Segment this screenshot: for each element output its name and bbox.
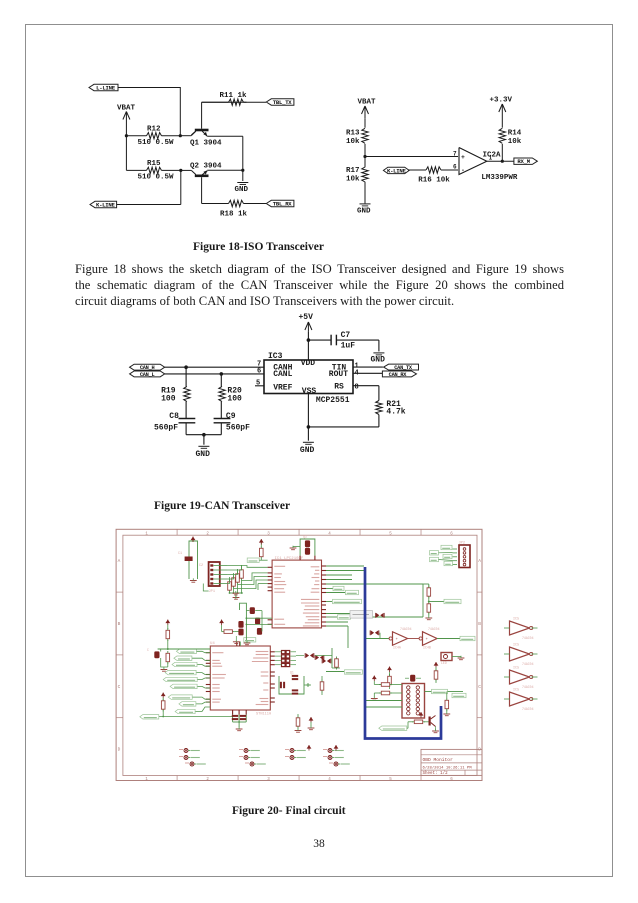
svg-text:74AC04: 74AC04 (400, 627, 412, 631)
svg-text:R16 10k: R16 10k (418, 177, 450, 185)
svg-text:R17: R17 (346, 167, 360, 175)
svg-text:74AC04: 74AC04 (428, 627, 440, 631)
svg-text:Sheet: 1/2: Sheet: 1/2 (423, 771, 449, 776)
svg-text:MCP2551: MCP2551 (316, 396, 350, 405)
svg-text:2: 2 (206, 533, 209, 537)
svg-text:2: 2 (206, 778, 209, 782)
svg-text:74AC04: 74AC04 (522, 707, 534, 711)
svg-text:6: 6 (450, 778, 453, 782)
svg-text:C: C (118, 684, 121, 690)
svg-text:Q1: Q1 (290, 671, 294, 675)
svg-text:R13: R13 (346, 130, 360, 138)
svg-text:TBL_RX: TBL_RX (273, 201, 293, 208)
svg-text:Q2: Q2 (303, 536, 307, 540)
svg-text:IC4A: IC4A (393, 646, 401, 650)
svg-text:VREF: VREF (273, 383, 292, 392)
svg-text:LED: LED (441, 661, 447, 665)
svg-text:IC4B: IC4B (423, 646, 431, 650)
svg-text:560pF: 560pF (226, 424, 250, 433)
svg-text:+: + (396, 638, 399, 642)
svg-text:1: 1 (145, 533, 148, 537)
svg-text:10k: 10k (346, 176, 360, 184)
svg-text:GND: GND (196, 450, 211, 459)
svg-text:GND: GND (300, 446, 315, 455)
svg-text:IC1 LPC2103F: IC1 LPC2103F (275, 557, 304, 561)
svg-text:A: A (118, 558, 121, 564)
svg-text:+5V: +5V (299, 313, 314, 322)
svg-text:4: 4 (328, 778, 331, 782)
svg-text:D: D (118, 747, 121, 753)
svg-text:VBAT: VBAT (117, 104, 136, 112)
svg-text:IC5: IC5 (513, 689, 519, 693)
svg-text:IC5: IC5 (513, 644, 519, 648)
svg-text:1uF: 1uF (341, 341, 356, 350)
svg-text:4.7k: 4.7k (386, 408, 405, 417)
svg-text:ROUT: ROUT (329, 370, 348, 379)
svg-text:3: 3 (267, 778, 270, 782)
svg-text:74AC04: 74AC04 (522, 685, 534, 689)
svg-text:C: C (478, 684, 481, 690)
svg-text:STN1110: STN1110 (256, 713, 271, 717)
svg-text:-: - (461, 167, 465, 174)
svg-text:TBL_TX: TBL_TX (273, 99, 293, 106)
svg-text:510 0.5W: 510 0.5W (138, 174, 175, 182)
svg-text:+3.3V: +3.3V (490, 97, 513, 105)
svg-text:C: C (147, 648, 149, 652)
svg-text:CAN_L: CAN_L (140, 372, 155, 378)
svg-text:OBD Monitor: OBD Monitor (423, 757, 454, 763)
svg-text:K-LINE: K-LINE (387, 167, 407, 174)
svg-text:A: A (478, 558, 481, 564)
svg-text:100: 100 (161, 394, 176, 403)
svg-text:R12: R12 (147, 126, 161, 134)
svg-text:6/28/2014 10:26:11 PM: 6/28/2014 10:26:11 PM (423, 765, 473, 770)
svg-text:4: 4 (328, 533, 331, 537)
svg-text:6: 6 (453, 164, 457, 171)
svg-text:JP1: JP1 (209, 590, 215, 594)
svg-text:74AC04: 74AC04 (522, 662, 534, 666)
svg-text:LM339PWR: LM339PWR (481, 174, 518, 182)
svg-text:1: 1 (145, 778, 148, 782)
svg-text:IC5: IC5 (513, 618, 519, 622)
svg-text:7: 7 (453, 151, 457, 158)
svg-text:6: 6 (450, 533, 453, 537)
svg-text:C2: C2 (199, 564, 203, 568)
svg-text:B: B (478, 621, 481, 627)
svg-text:1: 1 (489, 155, 493, 162)
svg-text:3: 3 (267, 533, 270, 537)
svg-text:VBAT: VBAT (358, 99, 377, 107)
svg-text:+: + (426, 638, 429, 642)
svg-text:CAN_TX: CAN_TX (394, 365, 413, 371)
svg-text:GND: GND (357, 208, 371, 216)
svg-text:B: B (118, 621, 121, 627)
svg-text:C8: C8 (169, 412, 179, 421)
svg-text:560pF: 560pF (154, 424, 178, 433)
svg-text:RX_M: RX_M (517, 158, 530, 165)
svg-text:Q1 3904: Q1 3904 (190, 140, 222, 148)
svg-text:5: 5 (389, 778, 392, 782)
svg-text:5: 5 (389, 533, 392, 537)
svg-text:CAN_RX: CAN_RX (389, 372, 408, 378)
svg-text:R15: R15 (147, 160, 161, 168)
svg-text:JP2: JP2 (459, 542, 465, 546)
svg-text:VSS: VSS (302, 387, 317, 396)
svg-text:CANL: CANL (273, 370, 292, 379)
svg-text:U4: U4 (210, 642, 215, 646)
svg-text:10k: 10k (346, 138, 360, 146)
svg-text:74AC04: 74AC04 (522, 636, 534, 640)
svg-text:R11 1k: R11 1k (220, 92, 248, 100)
svg-text:C1: C1 (178, 552, 182, 556)
svg-text:VDD: VDD (301, 359, 316, 368)
svg-text:IC5: IC5 (513, 667, 519, 671)
svg-text:C7: C7 (341, 331, 351, 340)
svg-text:100: 100 (227, 394, 242, 403)
svg-text:8: 8 (355, 384, 359, 392)
svg-text:10k: 10k (508, 138, 522, 146)
svg-text:510 0.5W: 510 0.5W (138, 139, 175, 147)
svg-text:R14: R14 (508, 130, 522, 138)
svg-text:GND: GND (371, 356, 386, 365)
svg-text:GND: GND (235, 186, 249, 194)
svg-text:+: + (461, 154, 465, 161)
svg-text:CAN_H: CAN_H (140, 365, 155, 371)
svg-text:R18 1k: R18 1k (220, 210, 248, 218)
svg-text:K-LINE: K-LINE (96, 202, 116, 209)
svg-text:Q2 3904: Q2 3904 (190, 162, 222, 170)
svg-text:L-LINE: L-LINE (96, 85, 116, 92)
svg-text:RS: RS (334, 383, 344, 392)
svg-text:C9: C9 (226, 412, 236, 421)
svg-text:IC3: IC3 (268, 352, 283, 361)
